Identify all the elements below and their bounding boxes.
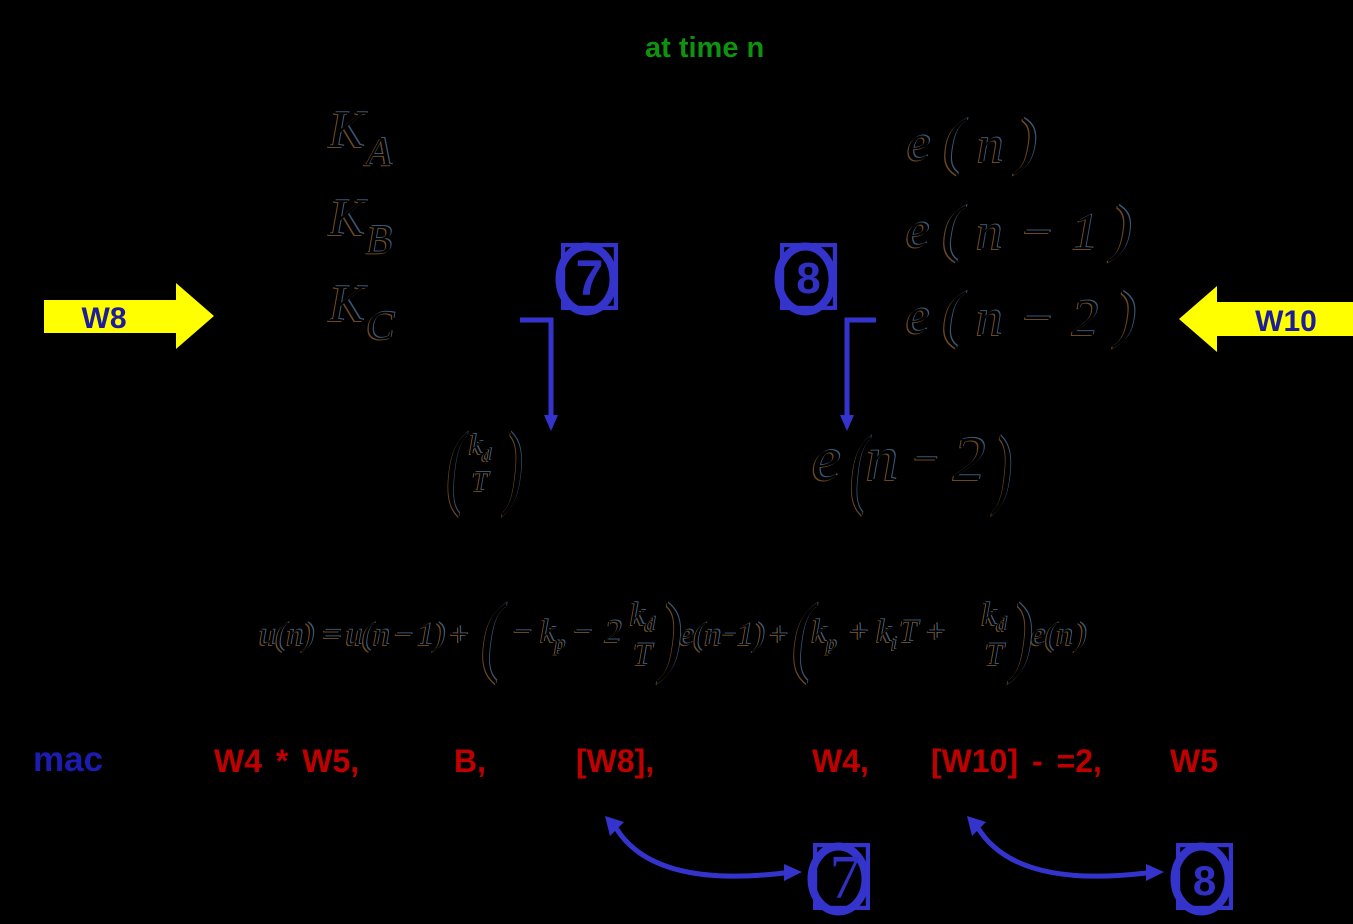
e(n-1) — [906, 192, 1132, 265]
svg-text:7: 7 — [830, 844, 861, 912]
svg-text:W8: W8 — [82, 302, 127, 335]
K_A — [329, 100, 392, 175]
big e(n-2) — [812, 417, 1010, 519]
yellow arrow W10 — [1173, 283, 1353, 358]
marker 8 top — [769, 232, 849, 324]
(kd/T) group — [443, 412, 517, 520]
marker 7 top — [550, 232, 630, 324]
elbow arrow 8 — [836, 310, 896, 440]
yellow arrow W8 — [40, 280, 220, 355]
e(n) — [907, 105, 1037, 178]
marker 7 bottom — [802, 832, 882, 924]
main formula — [259, 579, 1086, 691]
marker 8 bottom — [1165, 832, 1245, 924]
curved arrow to [W10] — [964, 812, 1174, 892]
mac instruction line — [0, 742, 1353, 744]
svg-text:W10: W10 — [1255, 305, 1317, 338]
K_B — [329, 188, 392, 263]
elbow arrow 7 — [510, 310, 570, 440]
svg-text:8: 8 — [796, 254, 820, 303]
K_C — [329, 274, 394, 349]
title: at time n — [645, 32, 764, 65]
svg-text:8: 8 — [1193, 857, 1216, 904]
svg-text:7: 7 — [576, 250, 604, 306]
curved arrow to [W8] — [602, 812, 812, 892]
e(n-2) — [906, 278, 1136, 351]
